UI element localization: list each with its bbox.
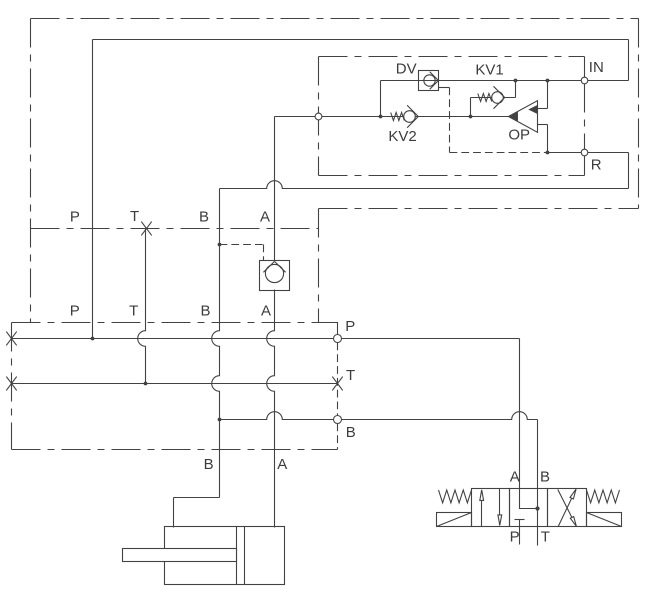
svg-text:R: R [591,156,602,173]
svg-text:A: A [261,303,271,320]
svg-text:P: P [70,303,80,320]
svg-text:A: A [510,469,520,486]
svg-text:A: A [260,209,270,226]
svg-text:P: P [510,529,520,546]
svg-text:B: B [540,469,550,486]
svg-text:T: T [346,367,355,384]
svg-text:IN: IN [589,59,604,76]
svg-text:T: T [130,208,139,225]
svg-text:B: B [200,303,210,320]
svg-text:B: B [346,424,356,441]
svg-text:B: B [204,456,214,473]
svg-text:P: P [70,209,80,226]
svg-text:DV: DV [396,61,417,78]
svg-text:T: T [129,303,138,320]
svg-text:A: A [277,456,287,473]
svg-text:KV2: KV2 [388,128,416,145]
svg-text:OP: OP [508,126,530,143]
svg-text:KV1: KV1 [475,62,503,79]
svg-text:P: P [345,318,355,335]
svg-text:T: T [541,529,550,546]
svg-text:B: B [199,209,209,226]
